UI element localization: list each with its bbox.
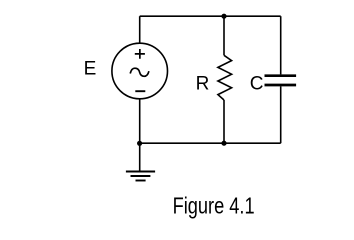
- capacitor C top plate: [265, 74, 297, 77]
- node junction dot bottom left (source branch): [137, 141, 142, 146]
- wire left branch top (top wire to source): [139, 16, 141, 43]
- svg-text:E: E: [84, 58, 97, 79]
- node junction dot top (R branch): [221, 14, 226, 19]
- svg-text:Figure 4.1: Figure 4.1: [173, 192, 255, 218]
- ground bar 3: [136, 180, 146, 182]
- svg-text:C: C: [250, 73, 264, 94]
- ground bar 1: [126, 171, 155, 173]
- svg-text:R: R: [196, 74, 210, 95]
- minus sign inside source: [135, 90, 145, 92]
- resistor R zigzag: [218, 55, 232, 100]
- wire top horizontal: [140, 15, 281, 17]
- plus sign inside source: [135, 49, 145, 59]
- wire bottom horizontal: [140, 142, 281, 144]
- sine wave symbol inside source: [130, 68, 149, 76]
- wire source bottom to ground: [139, 99, 141, 172]
- wire capacitor branch top: [280, 16, 282, 74]
- capacitor C bottom plate: [265, 84, 297, 87]
- ground bar 2: [131, 175, 151, 177]
- wire capacitor branch bottom: [280, 86, 282, 143]
- voltage source E circle: [112, 43, 168, 99]
- node junction dot bottom middle (R branch): [221, 141, 226, 146]
- wire resistor branch top: [223, 16, 225, 55]
- wire resistor branch bottom: [223, 100, 225, 143]
